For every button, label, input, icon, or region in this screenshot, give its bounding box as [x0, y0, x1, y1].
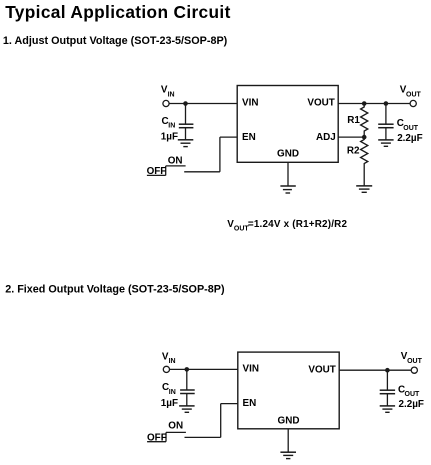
- svg-text:OFF: OFF: [147, 166, 167, 177]
- pin label ADJ: [316, 132, 336, 143]
- svg-text:R2: R2: [347, 145, 360, 156]
- pin label GND (fixed): [278, 416, 300, 427]
- section heading 1: [3, 35, 228, 47]
- label R2: [347, 145, 360, 156]
- ground (below COUT): [378, 140, 393, 146]
- svg-text:EN: EN: [242, 132, 256, 143]
- svg-text:OUT: OUT: [405, 391, 421, 398]
- pin label VIN: [242, 98, 258, 109]
- svg-text:2. Fixed Output Voltage (SOT-2: 2. Fixed Output Voltage (SOT-23-5/SOP-8P…: [5, 284, 225, 296]
- svg-text:IN: IN: [168, 123, 175, 130]
- pin label GND: [277, 148, 299, 159]
- svg-text:IN: IN: [168, 91, 175, 98]
- wire: IC VOUT pin to output terminal: [338, 103, 410, 105]
- pin label VIN (fixed): [243, 364, 259, 375]
- ground (IC GND pin): [280, 186, 295, 193]
- svg-text:2.2µF: 2.2µF: [399, 399, 424, 410]
- svg-text:1µF: 1µF: [161, 398, 178, 409]
- wire: switch to EN pin (fixed): [221, 404, 238, 438]
- capacitor COUT (fixed): [380, 370, 395, 406]
- label VOUT node: [400, 85, 422, 99]
- capacitor CIN: [179, 104, 194, 140]
- ground (IC GND pin, fixed): [280, 452, 296, 458]
- label OFF (fixed): [147, 433, 167, 444]
- page title: [5, 2, 231, 22]
- svg-text:VOUT: VOUT: [307, 98, 334, 109]
- label CIN (fixed): [162, 382, 176, 396]
- label R1: [347, 115, 360, 126]
- label VOUT node (fixed): [401, 351, 423, 365]
- IC U1 regulator body: [237, 86, 338, 163]
- wire: switch to EN pin: [220, 137, 237, 172]
- label VIN node: [161, 84, 175, 98]
- resistor R2: [361, 137, 368, 186]
- node VOUT output terminal (fixed): [411, 367, 417, 373]
- wire: ADJ pin to divider: [338, 136, 364, 138]
- svg-text:ADJ: ADJ: [316, 132, 336, 143]
- svg-text:IN: IN: [169, 389, 176, 396]
- svg-text:2.2µF: 2.2µF: [397, 133, 422, 144]
- junction: VOUT/COUT (fixed): [385, 368, 390, 373]
- label COUT: [397, 118, 419, 132]
- wire: VIN terminal to IC VIN pin: [169, 103, 237, 105]
- junction: VOUT/COUT: [384, 101, 389, 106]
- wire: IC GND pin to ground: [287, 162, 289, 186]
- svg-text:1. Adjust Output Voltage (SOT-: 1. Adjust Output Voltage (SOT-23-5/SOP-8…: [3, 35, 228, 47]
- pin label EN: [242, 132, 256, 143]
- node VIN input terminal: [163, 100, 169, 106]
- svg-text:=1.24V x (R1+R2)/R2: =1.24V x (R1+R2)/R2: [248, 219, 348, 230]
- capacitor COUT: [378, 104, 393, 140]
- value 2.2uF (fixed): [399, 399, 424, 410]
- node VIN input terminal (fixed): [163, 366, 169, 372]
- label COUT (fixed): [398, 384, 420, 398]
- svg-text:ON: ON: [168, 155, 183, 166]
- svg-text:IN: IN: [169, 358, 176, 365]
- ground (below COUT, fixed): [380, 406, 395, 412]
- junction: VIN/CIN (fixed): [185, 367, 190, 372]
- label CIN: [162, 116, 176, 130]
- svg-text:OUT: OUT: [406, 91, 422, 98]
- pin label VOUT (fixed): [308, 364, 335, 375]
- junction: R1/R2/ADJ: [362, 135, 367, 140]
- svg-text:VOUT: VOUT: [308, 364, 335, 375]
- resistor R1: [361, 104, 368, 138]
- svg-text:R1: R1: [347, 115, 360, 126]
- svg-text:GND: GND: [277, 148, 299, 159]
- wire: IC GND pin to ground (fixed): [287, 429, 289, 452]
- junction: VOUT/R1: [362, 101, 367, 106]
- pin label VOUT: [307, 98, 334, 109]
- svg-text:VIN: VIN: [243, 364, 259, 375]
- svg-text:EN: EN: [243, 398, 257, 409]
- value 1uF: [161, 131, 178, 142]
- formula VOUT=1.24V x (R1+R2)/R2: [227, 219, 347, 233]
- ground (below CIN): [178, 140, 194, 147]
- label VIN node (fixed): [162, 351, 176, 365]
- junction: VIN/CIN: [183, 101, 188, 106]
- svg-text:GND: GND: [278, 416, 300, 427]
- svg-text:OUT: OUT: [403, 125, 419, 132]
- capacitor CIN (fixed): [180, 369, 195, 406]
- label ON (fixed): [168, 421, 183, 432]
- IC U2 regulator body (fixed): [238, 352, 339, 429]
- label ON: [168, 155, 183, 166]
- wire: IC VOUT pin to output terminal (fixed): [339, 369, 411, 371]
- svg-text:1µF: 1µF: [161, 131, 178, 142]
- svg-text:OFF: OFF: [147, 433, 167, 444]
- section heading 2: [5, 284, 225, 296]
- node VOUT output terminal: [410, 100, 416, 106]
- svg-text:VIN: VIN: [242, 98, 258, 109]
- value 1uF (fixed): [161, 398, 178, 409]
- ground (below R2): [356, 186, 372, 192]
- label OFF: [147, 166, 167, 177]
- value 2.2uF: [397, 133, 422, 144]
- svg-text:OUT: OUT: [407, 358, 423, 365]
- switch ON/OFF (EN control): [147, 166, 220, 176]
- svg-text:ON: ON: [168, 421, 183, 432]
- pin label EN (fixed): [243, 398, 257, 409]
- svg-text:Typical Application Circuit: Typical Application Circuit: [5, 2, 231, 22]
- ground (below CIN, fixed): [179, 406, 195, 412]
- switch ON/OFF (EN control, fixed): [147, 432, 221, 441]
- wire: VIN terminal to IC VIN pin (fixed): [170, 368, 238, 370]
